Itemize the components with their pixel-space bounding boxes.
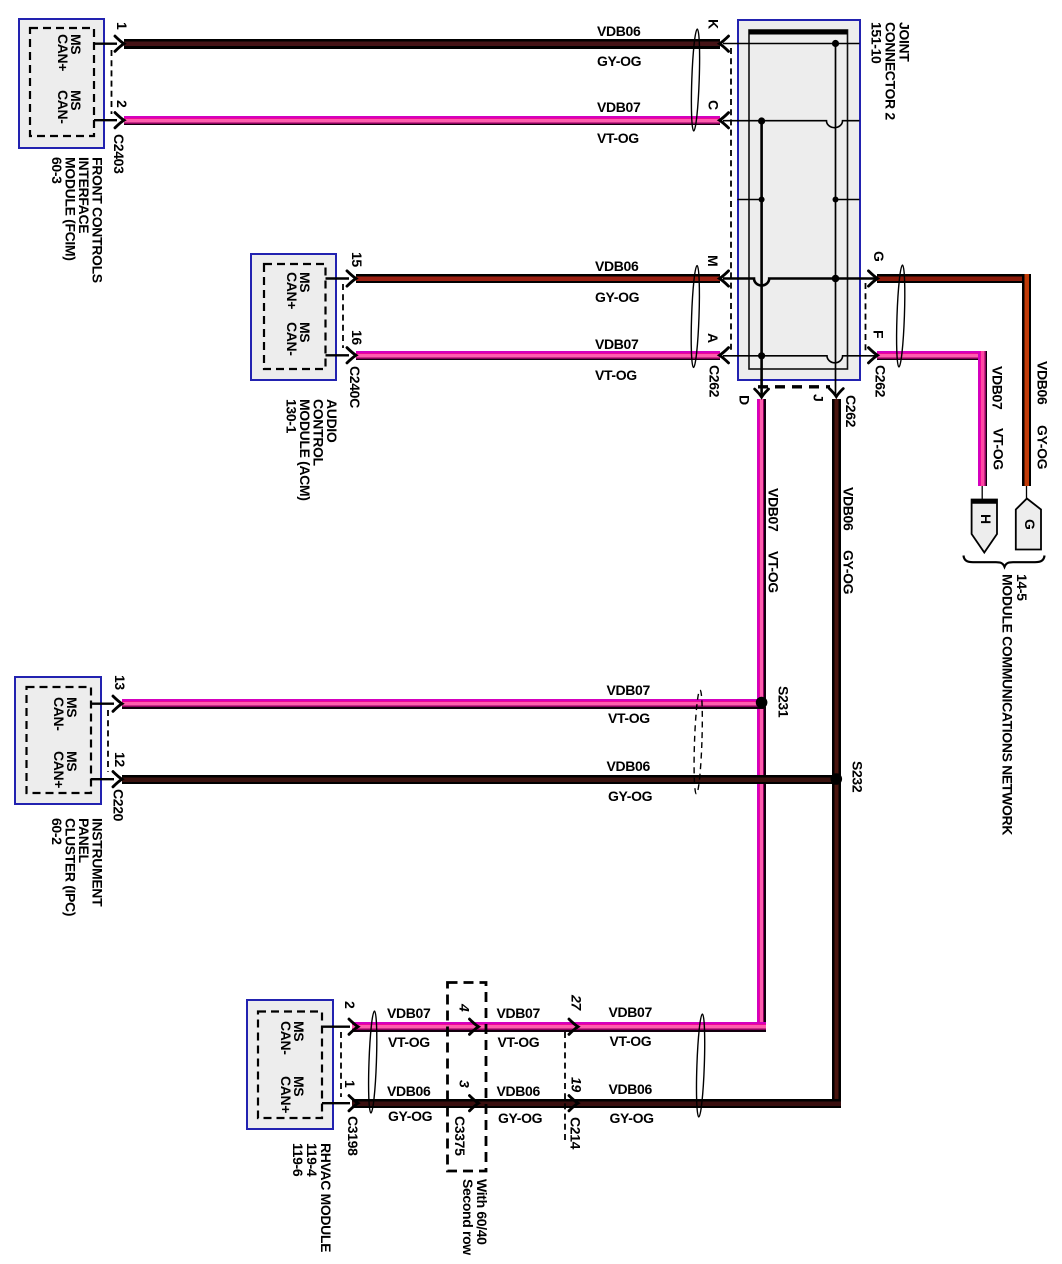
label FCIM MS CAN-: [56, 90, 82, 124]
JC2 junction dot left stub: [759, 197, 765, 203]
wire VDB06 GY-OG IPC pin12 to splice S232: [122, 775, 841, 785]
label GY-OG on J vertical wire: [841, 550, 855, 594]
connector dashed line C220: [107, 710, 109, 772]
label connector C214: [568, 1117, 582, 1149]
JC2 internal wire pin A row with hop: [723, 356, 877, 363]
label pin F JC2: [871, 330, 885, 338]
JC2 junction dot A: [758, 352, 765, 359]
label pin 27 C214: [569, 995, 583, 1010]
wire VDB07 VT-OG ACM pin16 to JC2 pin A: [356, 351, 720, 361]
module box RH HVAC MODULE: [246, 999, 334, 1130]
label FCIM MS CAN+: [56, 34, 82, 71]
label VDB07 HVAC wire set3: [609, 1006, 652, 1020]
label G inside flag: [1023, 519, 1037, 530]
label connector C240C: [348, 366, 362, 408]
label VDB06 on G vertical wire: [1035, 361, 1049, 404]
module box ACM (AUDIO CONTROL MODULE): [250, 253, 337, 381]
label pin K JC2: [706, 19, 720, 29]
label VT-OG HVAC wire set1: [388, 1036, 430, 1050]
label HVAC module name: [291, 1143, 333, 1252]
HVAC pin1 stub: [322, 1102, 350, 1104]
label VDB07 FCIM wire: [597, 101, 640, 115]
label H inside flag: [979, 514, 993, 524]
label VDB07 HVAC wire set2: [497, 1007, 540, 1021]
arrow JC2 pin M: [720, 271, 729, 286]
label IPC MS CAN-: [52, 697, 78, 731]
wire VDB07 VT-OG JC2 pin F horizontal segment: [877, 351, 987, 361]
connector flag H top bar: [972, 500, 997, 504]
label VDB06 HVAC wire set2: [497, 1085, 540, 1099]
label connector C3375: [453, 1116, 467, 1156]
JC2 inner rectangle: [749, 30, 848, 369]
module box IPC (INSTRUMENT PANEL CLUSTER): [14, 676, 102, 805]
label IPC module name: [50, 818, 104, 916]
wire VDB06 GY-OG JC2 pin G horizontal segment: [877, 274, 1031, 284]
connector box JOINT CONNECTOR 2: [737, 19, 861, 381]
arrow C3375 pin3: [470, 1096, 479, 1111]
twisted pair loop HVAC wires: [367, 1011, 378, 1113]
label VDB06 ACM wire: [595, 260, 638, 274]
connector dashed line C262 right of JC2: [865, 283, 867, 351]
arrow JC2 pin K: [720, 36, 729, 51]
arrow FCIM pin1: [115, 36, 124, 51]
label VT-OG on H vertical wire: [991, 428, 1005, 470]
label GY-OG ACM wire: [595, 291, 639, 305]
wire VDB07 VT-OG RH HVAC pin2 horizontal: [352, 1022, 766, 1032]
label connector C220: [111, 789, 125, 821]
twisted pair loop G F wires: [895, 265, 906, 367]
label ACM MS CAN+: [285, 272, 311, 309]
twisted pair loop FCIM wires: [690, 29, 701, 131]
label GY-OG on G vertical wire: [1035, 425, 1049, 469]
label pin 2 FCIM: [115, 100, 129, 107]
label GY-OG FCIM wire: [597, 55, 641, 69]
label pin 19 C214: [569, 1077, 583, 1092]
label VDB06 on J vertical wire: [841, 487, 855, 530]
twisted pair loop IPC wires dashed: [693, 690, 704, 794]
label pin D JC2: [737, 395, 751, 405]
JC2 junction dot K: [832, 40, 839, 47]
arrow IPC pin12: [113, 772, 122, 787]
label VDB06 IPC wire: [607, 760, 650, 774]
label connector C262 below F: [873, 365, 887, 397]
label VDB06 HVAC wire set1: [387, 1085, 430, 1099]
label GY-OG IPC wire: [608, 790, 652, 804]
label IPC MS CAN+: [52, 751, 78, 788]
label GY-OG HVAC wire set2: [498, 1112, 542, 1126]
arrow IPC pin13: [113, 696, 122, 711]
connector dashed line C240C: [342, 284, 344, 348]
label With 60/40 Second row: [461, 1179, 489, 1255]
ACM pin15 stub: [326, 277, 350, 279]
connector dashed line C214: [564, 1032, 566, 1140]
arrow JC2 pin C: [720, 113, 729, 128]
label pin 1 FCIM: [115, 22, 129, 29]
FCIM pin2 stub: [94, 119, 117, 121]
arrow ACM pin16: [347, 348, 356, 363]
label pin J JC2: [811, 394, 825, 401]
wire VDB06 GY-OG vertical segment to connector G: [1022, 274, 1032, 486]
stub line to connector G: [1026, 486, 1028, 499]
ACM inner dashed box: [264, 264, 326, 369]
arrow JC2 pin G: [869, 271, 878, 286]
RH HVAC inner dashed box: [258, 1012, 322, 1119]
connector flag H: [972, 500, 997, 553]
label connector C2403: [112, 134, 126, 174]
splice S231: [756, 697, 768, 709]
label pin 2 HVAC: [343, 1001, 357, 1008]
wire VDB06 GY-OG ACM pin15 to JC2 pin M: [356, 274, 720, 284]
JC2 internal wire pin M row with hop: [723, 279, 877, 286]
connector dashed line C262 left of JC2: [730, 48, 732, 352]
wire VDB07 VT-OG JC2 pin D vertical to splice S231 and HVAC: [757, 399, 766, 1032]
wire VDB06 GY-OG RH HVAC pin1 horizontal: [352, 1099, 841, 1109]
label pin 15 ACM: [350, 252, 364, 267]
label VDB07 ACM wire: [595, 338, 638, 352]
label pin C JC2: [706, 100, 720, 110]
label connector C262 below A: [707, 365, 721, 397]
label pin 12 IPC: [113, 752, 127, 767]
JC2 internal right stub: [836, 199, 860, 201]
twisted pair loop HVAC wires second: [695, 1014, 706, 1117]
JC2 junction dot C: [758, 117, 765, 124]
label pin 4 C3375: [457, 1004, 471, 1011]
JC2 internal wire pin K row: [723, 43, 860, 45]
splice S232: [831, 773, 843, 785]
arrow ACM pin15: [347, 271, 356, 286]
HVAC pin2 stub: [322, 1025, 350, 1027]
label pin 13 IPC: [113, 675, 127, 690]
arrow FCIM pin2: [115, 113, 124, 128]
label HVAC MS CAN-: [279, 1021, 305, 1055]
label VT-OG FCIM wire: [597, 132, 639, 146]
label connector C3198: [346, 1116, 360, 1156]
IPC pin13 stub: [91, 703, 114, 705]
wire VDB06 GY-OG JC2 pin J vertical to splice S232 and HVAC: [832, 399, 841, 1109]
wire VDB06 GY-OG FCIM pin1 to JC2 pin K: [124, 39, 720, 49]
wire VDB07 VT-OG IPC pin13 to splice S231: [122, 699, 766, 709]
label HVAC MS CAN+: [279, 1076, 305, 1113]
FCIM inner dashed box: [30, 28, 94, 136]
ACM pin16 stub: [326, 354, 350, 356]
wire VDB07 VT-OG FCIM pin2 to JC2 pin C: [124, 116, 720, 126]
label pin G JC2: [872, 251, 886, 262]
label VDB07 on H vertical wire: [990, 366, 1004, 409]
JC2 junction dot M: [832, 275, 840, 283]
JC2 bottom dashed connector bar C262: [758, 385, 830, 388]
label pin M JC2: [706, 255, 720, 266]
arrow C214 pin27: [569, 1019, 578, 1034]
twisted pair loop ACM wires: [690, 265, 701, 367]
label pin 3 C3375: [457, 1080, 471, 1087]
arrow HVAC pin1: [349, 1096, 358, 1111]
arrow C3375 pin4: [470, 1019, 479, 1034]
arrow JC2 pin D: [755, 389, 769, 397]
label VT-OG IPC wire: [608, 712, 650, 726]
connector flag G: [1016, 499, 1041, 550]
label VT-OG on D vertical wire: [766, 551, 780, 593]
JC2 junction dot right stub: [833, 197, 839, 203]
label VT-OG HVAC wire set3: [610, 1035, 652, 1049]
label splice S232: [850, 761, 864, 792]
label GY-OG HVAC wire set1: [388, 1110, 432, 1124]
connector dashed line C3198: [340, 1032, 342, 1097]
connector dashed line C2403: [111, 50, 113, 114]
label GY-OG HVAC wire set3: [610, 1112, 654, 1126]
label VDB07 HVAC wire set1: [387, 1007, 430, 1021]
IPC inner dashed box: [27, 687, 92, 793]
arrow C214 pin19: [569, 1096, 578, 1111]
arrow JC2 pin F: [869, 348, 878, 363]
arrow JC2 pin J: [829, 389, 843, 397]
label VDB07 on D vertical wire: [766, 488, 780, 531]
label JOINT CONNECTOR 2: [870, 22, 912, 120]
label pin A JC2: [706, 333, 720, 343]
FCIM pin1 stub: [94, 43, 117, 45]
arrow JC2 pin A: [720, 348, 729, 363]
JC2 inner top bus bar: [749, 30, 848, 35]
label pin 16 ACM: [350, 330, 364, 345]
label VDB06 HVAC wire set3: [609, 1083, 652, 1097]
JC2 internal wire pin C row with hop: [723, 121, 860, 128]
label ACM MS CAN-: [285, 322, 311, 356]
label ACM module name: [284, 399, 338, 501]
label VT-OG ACM wire: [595, 369, 637, 383]
label FCIM module name: [50, 157, 104, 283]
stub line to connector H: [981, 486, 983, 500]
label pin 1 HVAC: [343, 1080, 357, 1087]
label splice S231: [776, 686, 790, 717]
JC2 internal left bus vertical: [760, 121, 763, 397]
label VT-OG HVAC wire set2: [498, 1036, 540, 1050]
label connector C262 right of J: [844, 395, 858, 427]
arrow HVAC pin2: [349, 1019, 358, 1034]
JC2 internal right bus vertical: [835, 44, 837, 397]
label VDB06 FCIM wire: [597, 25, 640, 39]
connector C3375 dashed box: [448, 983, 487, 1172]
IPC pin12 stub: [91, 778, 114, 780]
wire VDB07 VT-OG vertical segment to connector H: [978, 351, 988, 486]
JC2 internal left stub: [738, 199, 762, 201]
module box FCIM (FRONT CONTROLS INTERFACE MODULE): [18, 18, 105, 149]
brace under flags H G: [964, 556, 1045, 567]
label VDB07 IPC wire: [607, 684, 650, 698]
label 14-5 MODULE COMMUNICATIONS NETWORK: [1000, 574, 1029, 835]
